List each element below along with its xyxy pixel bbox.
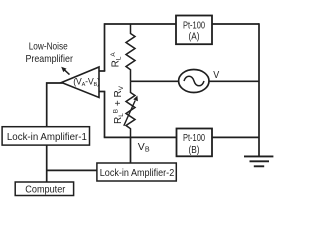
wire: top rail left (node A to Pt-100 A left pin) [105,23,177,25]
svg-text:Lock-in Amplifier-1: Lock-in Amplifier-1 [7,131,87,143]
svg-text:RLB + RV: RLB + RV [113,85,126,124]
instrument box Lock-in Amplifier-2 [97,163,176,181]
wire: left vertical from op-amp - input down to node B rail [104,92,106,138]
AC source V (circle with sine) [179,70,209,93]
op-amp U1 low-noise preamplifier (triangle) [62,67,100,98]
instrument box Lock-in Amplifier-1 [2,127,89,145]
wire: top rail right (Pt-100 A right pin to right rail) [212,23,259,25]
variable resistor arrowhead [133,96,138,102]
wire: node B rail left (to Pt-100 B left pin) [104,136,177,138]
ground symbol [244,156,273,166]
wire: right rail vertical down to ground [258,23,260,156]
svg-text:Lock-in Amplifier-2: Lock-in Amplifier-2 [100,167,175,179]
wire: node B rail right (Pt-100 B right pin to right rail) [212,136,259,138]
svg-text:(A): (A) [189,31,200,43]
wire: op-amp output left then down to Lock-in Amplifier-1 [47,83,63,127]
resistor RLB+RV body (zigzag, variable) [126,81,135,137]
instrument box Computer [15,182,73,196]
wire: V_B node down to Lock-in Amplifier-2 top [130,137,132,163]
callout arrow shaft from op-amp toward label [65,70,70,75]
resistor RLA body (zigzag) [126,24,135,81]
variable resistor arrow shaft across RLB+RV [124,101,135,126]
svg-text:Preamplifier: Preamplifier [25,53,73,65]
callout arrowhead [61,67,66,72]
wire: left vertical from top rail down to op-amp + input [104,23,106,71]
svg-text:Computer: Computer [25,183,65,195]
svg-text:V: V [213,69,219,81]
sensor box Pt-100 (B) [177,129,213,157]
svg-text:VB: VB [138,141,150,154]
wire: op-amp top input stub [99,70,105,72]
svg-text:RLA: RLA [110,52,123,68]
sensor box Pt-100 (A) [176,16,212,45]
AC source sine wave [184,76,204,86]
wire: Lock-in Amplifier-1 down to Computer [46,145,48,182]
wire: middle rail from AC source to right rail [209,80,259,82]
wire: branch to Lock-in Amplifier-2 left pin [47,169,97,171]
wire: middle rail from resistor junction to AC source [131,80,180,82]
svg-text:Low-Noise: Low-Noise [29,41,68,53]
label RLB + RV (rotated) [113,85,126,124]
label RLA (rotated) [110,52,123,68]
svg-text:Pt-100: Pt-100 [183,132,205,144]
svg-text:(B): (B) [189,144,200,156]
wire: op-amp bottom input stub [99,91,105,93]
